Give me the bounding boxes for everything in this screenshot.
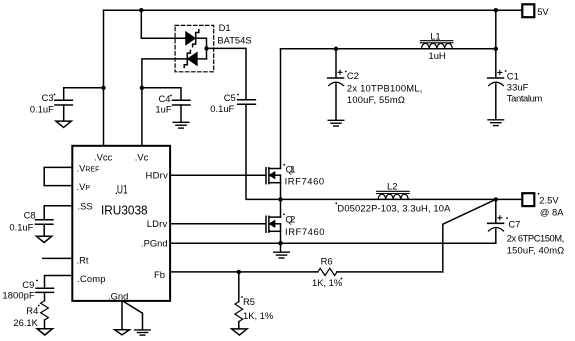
svg-text:.Vcc: .Vcc <box>94 151 113 162</box>
svg-text:IRF7460: IRF7460 <box>285 176 325 187</box>
svg-text:C1: C1 <box>507 70 519 81</box>
svg-text:R5: R5 <box>243 296 255 307</box>
svg-text:C4: C4 <box>159 93 171 104</box>
svg-text:.Gnd: .Gnd <box>108 290 128 301</box>
resistor R4 <box>41 301 49 320</box>
resistor R6 <box>318 268 337 275</box>
wire Comp to C9 <box>45 276 73 289</box>
svg-text:D05022P-103, 3.3uH, 10A: D05022P-103, 3.3uH, 10A <box>337 203 451 214</box>
node junction C4 tap <box>140 86 144 90</box>
wire output to connector <box>496 198 522 200</box>
svg-text:C3: C3 <box>42 92 54 103</box>
capacitor C3 <box>55 99 73 101</box>
node junction top rail to D1 <box>139 8 143 12</box>
resistor R5 <box>238 272 240 302</box>
node junction top rail to L1/C1 <box>494 8 498 12</box>
svg-text:150uF, 40mΩ: 150uF, 40mΩ <box>507 245 564 256</box>
connector 5V input <box>522 4 534 17</box>
svg-text:1800pF: 1800pF <box>2 289 35 300</box>
svg-text:C2: C2 <box>347 70 359 81</box>
svg-text:1K, 1%: 1K, 1% <box>312 277 342 288</box>
svg-text:33uF: 33uF <box>507 81 529 92</box>
node output junction <box>494 197 498 201</box>
svg-text:.PGnd: .PGnd <box>141 238 168 249</box>
wire top 5V rail <box>104 9 523 11</box>
svg-text:0.1uF: 0.1uF <box>30 104 54 115</box>
wire C4 branch <box>142 88 181 100</box>
svg-text:5V: 5V <box>537 6 549 17</box>
svg-text:1uF: 1uF <box>155 104 171 115</box>
wire feedback up <box>443 199 496 272</box>
wire D1 common to C5 <box>207 48 247 99</box>
svg-text:0.1uF: 0.1uF <box>9 222 33 233</box>
ground R5 triangle <box>232 329 248 335</box>
capacitor C2 <box>335 49 337 78</box>
svg-text:.Vc: .Vc <box>135 151 149 162</box>
capacitor C1 <box>495 49 497 78</box>
wire Vcc vertical <box>103 10 105 146</box>
node junction L1/C1 <box>494 47 498 51</box>
svg-text:IRU3038: IRU3038 <box>101 203 148 217</box>
capacitor C9 <box>36 287 54 289</box>
wire VREF to Vp loop <box>44 167 72 185</box>
svg-text:100uF, 55mΩ: 100uF, 55mΩ <box>347 94 405 105</box>
capacitor C8 <box>35 219 53 221</box>
wire C5 to switch node <box>246 104 281 199</box>
svg-text:BAT54S: BAT54S <box>217 35 251 46</box>
wire 5V down to L1 rail <box>495 10 497 49</box>
op-amp U1 IC box IRU3038 <box>72 146 170 301</box>
svg-text:Tantalum: Tantalum <box>507 92 543 103</box>
svg-text:C8: C8 <box>24 209 36 220</box>
svg-text:Q1: Q1 <box>286 163 296 174</box>
wire PGnd <box>170 242 496 244</box>
ground C1 earth <box>488 119 504 121</box>
svg-text:IRF7460: IRF7460 <box>285 226 325 237</box>
svg-text:D1: D1 <box>219 22 231 33</box>
svg-text:1K, 1%: 1K, 1% <box>243 310 273 321</box>
wire Gnd diagonal <box>123 301 143 330</box>
ground Gnd triangle <box>115 330 130 335</box>
svg-text:C5: C5 <box>224 92 236 103</box>
wire D1 anode lead <box>197 58 207 60</box>
wire to D1 anode <box>141 10 186 38</box>
diode D1 top schottky <box>186 32 195 44</box>
transistor Q1 IRF7460 <box>265 168 267 184</box>
svg-text:26.1K: 26.1K <box>13 317 38 328</box>
connector 2.5V output <box>522 193 534 206</box>
svg-text:0.1uF: 0.1uF <box>210 103 234 114</box>
svg-text:C7: C7 <box>508 219 520 230</box>
capacitor C5 <box>238 99 256 101</box>
svg-text:L2: L2 <box>387 180 397 191</box>
ground C3 triangle <box>56 121 71 127</box>
svg-text:U1: U1 <box>117 185 128 197</box>
inductor L2 <box>378 194 408 199</box>
node switch junction <box>278 197 282 201</box>
svg-text:R6: R6 <box>321 255 333 266</box>
wire Q1 drain up <box>280 49 282 169</box>
svg-text:2x 10TPB100ML,: 2x 10TPB100ML, <box>347 83 423 94</box>
ground Gnd earth <box>135 329 151 331</box>
ground C8 triangle <box>36 236 51 242</box>
diode D1 bottom schottky <box>188 53 197 65</box>
wire Rt stub <box>43 257 73 259</box>
wire Gnd pin down <box>121 301 123 330</box>
capacitor C4 <box>173 99 191 101</box>
node Q2 source junction <box>278 241 282 245</box>
wire Fb <box>170 271 318 273</box>
svg-text:.Comp: .Comp <box>77 273 106 284</box>
wire HDrv <box>170 174 265 176</box>
diode D1 dashed box <box>175 25 214 71</box>
svg-text:.SS: .SS <box>78 200 93 211</box>
svg-text:Fb: Fb <box>154 269 165 280</box>
svg-text:Q2: Q2 <box>285 214 295 225</box>
wire input rail <box>281 48 496 50</box>
wire switch node to L2 <box>281 198 496 200</box>
ground PGnd earth <box>280 243 282 252</box>
node D1 common junction <box>204 46 208 50</box>
wire C3 branch <box>64 88 104 100</box>
svg-text:R4: R4 <box>26 305 38 316</box>
svg-text:LDrv: LDrv <box>147 218 168 229</box>
transistor Q2 IRF7460 <box>265 216 267 232</box>
ground C2 earth <box>328 119 344 121</box>
svg-text:@ 8A: @ 8A <box>540 207 564 218</box>
node R5 junction <box>237 270 241 274</box>
ground R4 triangle <box>37 329 52 335</box>
svg-text:.Rt: .Rt <box>77 254 89 265</box>
wire SS to C8 <box>44 206 72 220</box>
svg-text:1uH: 1uH <box>429 50 446 61</box>
capacitor C7 <box>495 199 497 223</box>
inductor L1 <box>422 43 453 48</box>
svg-text:HDrv: HDrv <box>146 170 169 181</box>
svg-text:L1: L1 <box>430 30 440 41</box>
svg-text:.VREF: .VREF <box>77 162 100 173</box>
node junction C3 tap <box>101 86 105 90</box>
wire LDrv <box>170 223 265 225</box>
svg-text:.VP: .VP <box>77 181 91 192</box>
tiny designator dots <box>54 94 56 96</box>
wire D1 common <box>196 38 207 59</box>
ground C4 earth <box>173 121 189 123</box>
svg-text:2x 6TPC150M,: 2x 6TPC150M, <box>507 232 564 243</box>
node junction C2 <box>334 47 338 51</box>
svg-text:2.5V: 2.5V <box>539 194 559 205</box>
wire D1 bottom to Vc <box>142 59 187 146</box>
